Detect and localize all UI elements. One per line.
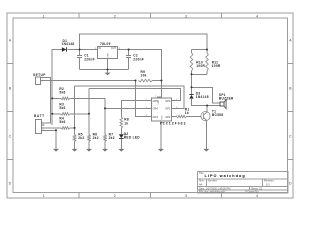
diode D3 1N4148 bbox=[189, 92, 208, 100]
svg-text:VDD: VDD bbox=[158, 100, 160, 105]
resistor R9 10k bbox=[139, 70, 153, 82]
ground regulator bbox=[105, 73, 111, 76]
wire tap2 to GP0 (over IC) bbox=[89, 89, 180, 101]
voltage regulator IC2 78L05 bbox=[95, 42, 121, 58]
wire GP2 to R1 to T1 base bbox=[176, 116, 202, 118]
svg-text:GP0: GP0 bbox=[165, 99, 171, 103]
wire R2 left to V+ column bbox=[52, 97, 61, 99]
ground T1 emitter bbox=[203, 149, 209, 152]
svg-text:SETUP: SETUP bbox=[33, 73, 46, 77]
ground BATT pin4 bbox=[53, 149, 59, 152]
svg-text:2k2: 2k2 bbox=[78, 136, 84, 140]
svg-text:1N4148: 1N4148 bbox=[196, 95, 209, 99]
svg-text:3: 3 bbox=[185, 14, 187, 18]
svg-text:5k6: 5k6 bbox=[59, 120, 65, 124]
resistor R3 5k6 bbox=[59, 103, 69, 116]
wire D1 cathode to 78L05 IN bbox=[67, 49, 97, 51]
wire BATT pin4 to ground bbox=[45, 130, 57, 149]
wire tap3 to GP4 bbox=[105, 107, 148, 109]
wire buzzer top branch bbox=[192, 87, 220, 103]
svg-text:4: 4 bbox=[256, 14, 258, 18]
svg-text:4: 4 bbox=[256, 194, 258, 198]
junction dots bbox=[51, 49, 208, 132]
wire tap1 to GP1 (over IC) bbox=[75, 86, 185, 109]
frame row/column markers bbox=[9, 14, 293, 198]
drawing frame bbox=[7, 13, 293, 198]
wire SETUP pin2 / MCLR net to R9 and GP3 bbox=[45, 81, 148, 117]
svg-text:2k2: 2k2 bbox=[109, 136, 115, 140]
svg-text:2: 2 bbox=[114, 14, 116, 18]
svg-text:100R: 100R bbox=[196, 64, 205, 68]
ground R7 bbox=[102, 149, 108, 152]
wire 78L05 OUT to 5V rail and VDD bbox=[118, 50, 162, 99]
wire battery+ top rail bbox=[80, 34, 208, 50]
svg-text:GP2: GP2 bbox=[165, 115, 171, 119]
svg-text:Revision:: Revision: bbox=[264, 180, 275, 183]
wire R5 bottom to ground bbox=[74, 142, 76, 149]
svg-text:LIPO watchdog: LIPO watchdog bbox=[205, 174, 246, 178]
wire T1 collector bbox=[206, 106, 208, 113]
resistor R2 5k6 bbox=[59, 87, 69, 100]
resistor R8 1k bbox=[120, 117, 129, 128]
svg-text:D: D bbox=[289, 181, 292, 185]
resistor R11 100R bbox=[206, 53, 221, 72]
svg-text:C: C bbox=[289, 134, 292, 138]
resistor R6 2k2 bbox=[88, 132, 99, 141]
wire SETUP pin1 to BATT pin1 bbox=[45, 78, 51, 123]
svg-text:2: 2 bbox=[114, 194, 116, 198]
ground D2 bbox=[118, 149, 124, 152]
svg-text:3: 3 bbox=[185, 194, 187, 198]
svg-text:100R: 100R bbox=[212, 64, 221, 68]
wire R2 output to R7 column bbox=[70, 98, 105, 134]
capacitor C1 220nF bbox=[77, 54, 95, 62]
wire BATT pin3 to R4 bbox=[45, 127, 61, 129]
wire R6 bottom to ground bbox=[88, 142, 90, 149]
microcontroller IC1 PIC12F683 bbox=[146, 96, 187, 127]
svg-text:A4: A4 bbox=[199, 182, 203, 186]
ground R6 bbox=[86, 149, 92, 152]
svg-text:GND: GND bbox=[107, 53, 109, 58]
svg-text:1: 1 bbox=[43, 14, 45, 18]
svg-text:5k6: 5k6 bbox=[59, 91, 65, 95]
svg-text:220nF: 220nF bbox=[133, 57, 144, 61]
svg-text:2k2: 2k2 bbox=[93, 136, 99, 140]
wire D1 anode to BATT pin2 (vertical V+ feed) bbox=[52, 50, 62, 126]
svg-text:1: 1 bbox=[43, 194, 45, 198]
wire C2 leads bbox=[128, 50, 130, 70]
svg-text:IN: IN bbox=[99, 47, 102, 50]
wire GP5 to R8 / LED branch bbox=[121, 101, 147, 117]
wire R8 to LED D2 bbox=[120, 128, 122, 149]
svg-text:OUT: OUT bbox=[111, 47, 117, 50]
svg-text:BATT: BATT bbox=[34, 114, 45, 118]
transistor T1 BC558 bbox=[201, 110, 223, 121]
wire R9 to 5V rail bbox=[153, 80, 162, 82]
wire R3 left bbox=[52, 113, 61, 115]
wire regulator ground rail bbox=[80, 59, 129, 73]
connector X1 BATT bbox=[34, 114, 45, 134]
ground VSS bbox=[158, 149, 164, 152]
diode D1 1N4148 bbox=[62, 39, 75, 52]
resistor R1 1k bbox=[177, 107, 190, 118]
wire R7 bottom to ground bbox=[104, 142, 106, 149]
LED D2 RED bbox=[119, 132, 140, 140]
ground R5 bbox=[72, 149, 78, 152]
resistor R5 2k2 bbox=[73, 132, 84, 141]
svg-text:1N4148: 1N4148 bbox=[62, 42, 75, 46]
svg-text:C: C bbox=[9, 134, 12, 138]
svg-text:1k: 1k bbox=[185, 111, 189, 115]
svg-text:BUZZER: BUZZER bbox=[219, 97, 234, 101]
connector SV2 SETUP bbox=[33, 73, 46, 85]
buzzer SP1 bbox=[219, 93, 234, 108]
svg-text:BC558: BC558 bbox=[212, 113, 223, 117]
wire D3 bottom to buzzer pin2 bbox=[192, 99, 220, 106]
svg-text:10k: 10k bbox=[141, 74, 147, 78]
svg-text:GP3: GP3 bbox=[153, 115, 159, 119]
svg-text:PIC12F683: PIC12F683 bbox=[160, 122, 186, 126]
wire R3 output to R6 column bbox=[70, 89, 89, 135]
wire R10/R11 top bar bbox=[192, 50, 208, 53]
svg-text:Drawn By:: Drawn By: bbox=[248, 191, 260, 194]
wire R10/R11 bottom bar bbox=[192, 71, 208, 94]
svg-text:GP1: GP1 bbox=[165, 107, 171, 111]
capacitor C2 220nF bbox=[126, 54, 144, 62]
svg-text:File: lipo_watchdog.sch: File: lipo_watchdog.sch bbox=[199, 191, 226, 194]
svg-text:220nF: 220nF bbox=[84, 57, 95, 61]
title block bbox=[198, 171, 289, 193]
svg-text:Size:: Size: bbox=[199, 180, 205, 183]
svg-text:D: D bbox=[9, 181, 12, 185]
wire VSS to ground bbox=[160, 121, 162, 149]
svg-text:5k6: 5k6 bbox=[59, 106, 65, 110]
svg-text:1k: 1k bbox=[124, 121, 128, 125]
svg-text:0.1: 0.1 bbox=[266, 182, 270, 186]
wire R4 output to R5 column bbox=[70, 86, 75, 135]
svg-text:GP4: GP4 bbox=[153, 107, 159, 111]
svg-text:RED LED: RED LED bbox=[124, 135, 140, 139]
svg-text:78L05: 78L05 bbox=[100, 42, 111, 46]
resistor R7 2k2 bbox=[104, 132, 115, 141]
wire C1 leads bbox=[79, 50, 81, 70]
svg-text:Number:: Number: bbox=[208, 180, 218, 183]
resistor R10 100R bbox=[190, 53, 205, 72]
resistor R4 5k6 bbox=[59, 117, 69, 130]
wire T1 emitter to ground bbox=[205, 120, 207, 149]
svg-text:VSS: VSS bbox=[161, 115, 163, 120]
